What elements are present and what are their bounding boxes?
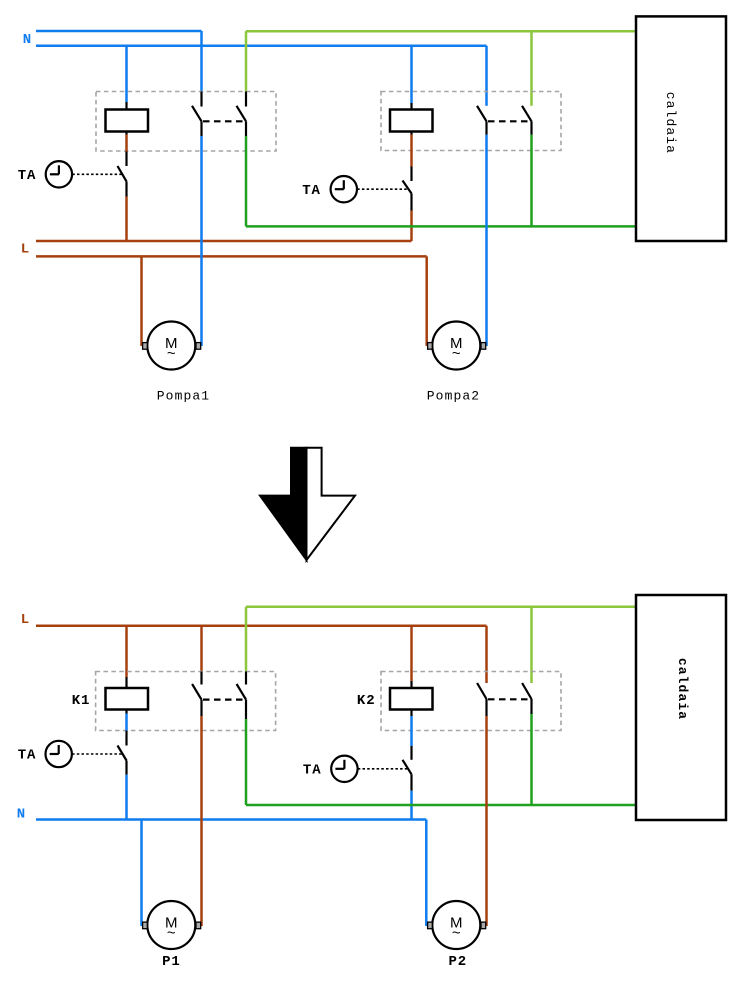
timer switch TA2 (bottom)	[403, 746, 412, 791]
wire blue K1a to motor1 right	[200, 136, 203, 346]
wire coil K1 down (blue)	[125, 714, 128, 731]
svg-text:TA: TA	[302, 183, 321, 199]
contact K1a (NO)	[192, 92, 202, 137]
motor P2	[428, 901, 486, 949]
caldaia box (bottom)	[636, 595, 726, 820]
wire L horizontal (bottom)	[36, 625, 487, 628]
timer TA1 clock	[46, 161, 72, 187]
svg-text:N: N	[23, 32, 31, 48]
coil 2	[390, 103, 433, 135]
dashed box relay K1	[96, 672, 276, 731]
timer switch TA1	[118, 152, 127, 197]
dashed box relay K2	[381, 672, 561, 731]
wire N horizontal (bottom)	[36, 818, 426, 821]
svg-text:~: ~	[167, 345, 176, 362]
svg-text:P2: P2	[448, 954, 467, 970]
wire L vertical into contact K2a	[485, 626, 488, 683]
wire L branch into contact K1a	[200, 626, 203, 672]
wire light green caldaia top bus	[246, 30, 636, 33]
svg-text:L: L	[21, 612, 29, 628]
svg-text:L: L	[21, 242, 29, 258]
timer TA2 dotted link	[357, 188, 407, 190]
wire branch to coil 1	[125, 46, 128, 102]
motor Pompa2	[428, 322, 486, 370]
wire N2 vertical into contact K2a	[485, 46, 488, 106]
wire L2 branch to motor1 left	[140, 256, 143, 346]
wire dark green from K1b down	[245, 136, 248, 226]
contact K2a (NO, bottom)	[477, 683, 486, 716]
wire N1 horizontal	[36, 30, 202, 33]
motor P1	[143, 901, 201, 949]
mechanical link K2 contacts (bottom)	[488, 698, 532, 700]
mechanical link K1 contacts	[203, 120, 246, 122]
svg-text:TA: TA	[18, 168, 37, 184]
motor Pompa1	[143, 322, 201, 370]
wire dark green from K2b down	[530, 135, 533, 227]
wire TA1 switch to L1 (red)	[125, 197, 128, 242]
contact K1b (NO, bottom)	[237, 672, 246, 720]
wire TA1 switch to N (blue)	[125, 775, 128, 820]
contact K1a (NO, bottom)	[192, 672, 201, 717]
wire dark green bottom bus to caldaia	[246, 225, 636, 228]
wire coil1 to TA switch (red)	[125, 135, 128, 152]
wire N to motor P2 left	[425, 820, 428, 927]
wire red K1a to motor P1 right	[200, 716, 203, 926]
wire L2 horizontal	[36, 255, 427, 258]
contact K1b (NO)	[237, 92, 247, 137]
svg-text:caldaia: caldaia	[663, 92, 678, 154]
wire blue K2a to motor2 right	[485, 135, 488, 346]
wire N1 vertical to contact K1a	[200, 31, 203, 92]
wire light green drop to contact K1b	[245, 31, 248, 91]
timer TA1 clock (bottom)	[46, 741, 72, 767]
wire L branch to coil K1	[125, 626, 128, 677]
svg-text:P1: P1	[162, 954, 181, 970]
caldaia box (top)	[636, 16, 726, 241]
timer TA2 clock (bottom)	[331, 756, 357, 782]
wire TA2 switch to N (blue)	[410, 791, 413, 820]
contact K2b (NO)	[522, 106, 532, 135]
wire TA2 switch to L1 (red)	[410, 211, 413, 242]
timer switch TA2	[403, 167, 412, 211]
arrow down, left half filled	[260, 448, 355, 560]
svg-text:TA: TA	[18, 748, 37, 764]
wire light green drop to contact K2b	[530, 31, 533, 106]
mechanical link K2 contacts	[488, 120, 532, 122]
wire light green drop to contact K2b	[530, 607, 533, 683]
svg-text:caldaia: caldaia	[675, 658, 690, 720]
wire L branch to coil K2	[410, 626, 413, 681]
wire light green caldaia bus (bottom)	[246, 605, 636, 608]
wire light green drop to contact K1b	[245, 607, 248, 672]
svg-text:Pompa1: Pompa1	[157, 389, 210, 404]
wire red K2a to motor P2 right	[485, 716, 488, 926]
mechanical link K1 contacts (bottom)	[203, 698, 246, 700]
timer TA1 dotted link	[72, 173, 122, 175]
svg-text:TA: TA	[303, 762, 322, 778]
wire coil K2 down (blue)	[410, 716, 413, 746]
svg-text:~: ~	[452, 924, 461, 941]
timer TA2 dotted link (bottom)	[358, 768, 407, 770]
wire N branch to motor P1 left	[140, 820, 143, 927]
svg-text:Pompa2: Pompa2	[427, 389, 480, 404]
timer TA1 dotted link (bottom)	[72, 753, 122, 755]
wire branch to coil 2	[410, 46, 413, 103]
wire L2 to motor2 left	[425, 256, 428, 346]
wire dark green bus to caldaia (bottom)	[246, 804, 636, 807]
coil K2	[390, 681, 433, 716]
dashed box relay 2	[381, 92, 561, 151]
timer switch TA1 (bottom)	[118, 731, 127, 775]
dashed box relay 1	[96, 92, 276, 152]
svg-text:K1: K1	[72, 693, 91, 709]
timer TA2 clock	[331, 176, 357, 202]
contact K2b (NO, bottom)	[522, 683, 531, 714]
coil 1	[106, 102, 149, 135]
wire coil2 down (red)	[410, 135, 413, 167]
contact K2a (NO)	[477, 106, 487, 135]
svg-text:~: ~	[452, 345, 461, 362]
svg-text:K2: K2	[357, 693, 376, 709]
coil K1	[106, 677, 149, 714]
wire dark green from K1b down (bottom)	[245, 719, 248, 805]
svg-text:N: N	[17, 807, 25, 823]
wire N2 horizontal	[36, 45, 487, 48]
wire dark green from K2b down (bottom)	[530, 714, 533, 805]
svg-text:~: ~	[167, 924, 176, 941]
wire L1 horizontal	[36, 240, 412, 243]
